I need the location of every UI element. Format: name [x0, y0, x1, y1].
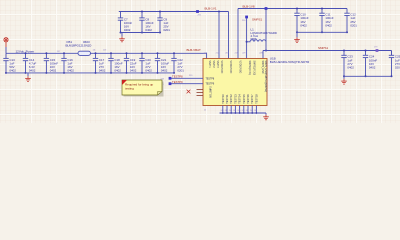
svg-text:242: 242 [225, 110, 228, 112]
U1B top pin names [208, 61, 266, 93]
svg-text:SMPS1(FLY1): SMPS1(FLY1) [248, 61, 250, 76]
svg-text:BLB-UENRG-50SQTR-NDTR: BLB-UENRG-50SQTR-NDTR [270, 60, 310, 64]
junction smpsgnd/C23 [343, 75, 345, 77]
junction gndrail/C16 [63, 72, 65, 74]
svg-text:SMPS1: SMPS1 [252, 17, 263, 21]
wire gnd stem U1B [265, 113, 267, 115]
junction 1v8gnd/C11 [321, 31, 323, 33]
svg-text:0201: 0201 [177, 69, 184, 73]
wire BLB-1V1 rail [119, 11, 229, 13]
svg-text:TEST16: TEST16 [246, 94, 250, 104]
capacitor C12 [344, 9, 357, 33]
capacitor C20 [139, 53, 152, 73]
U1B unconnected left pins [197, 90, 204, 96]
junction L1 left junction [246, 41, 248, 43]
svg-text:0402: 0402 [99, 69, 106, 73]
capacitor C17 [93, 53, 106, 73]
svg-text:0402: 0402 [9, 69, 16, 73]
no-connect cross [187, 90, 191, 94]
junction 1v1rail/C8 [141, 11, 143, 13]
wire C10-C12 ground bus [297, 31, 347, 33]
capacitor C14 [23, 53, 37, 73]
junction rail/C18 [110, 52, 112, 54]
wire U1B left pin wire TESTP9 [170, 83, 203, 85]
junction gndrail/C22 [173, 72, 175, 74]
ground GND1 [25, 76, 31, 81]
ground GND2 [119, 37, 125, 42]
capacitor C19 [124, 53, 137, 73]
svg-text:22: 22 [204, 110, 206, 112]
svg-text:0402: 0402 [300, 23, 307, 27]
junction gndrail/C14 [25, 72, 27, 74]
capacitor C25 [389, 51, 400, 77]
svg-text:0201: 0201 [395, 66, 400, 70]
junction rail/C22 [173, 52, 175, 54]
note box: Required for bring up testing [122, 80, 164, 97]
junction 1v1gnd/C7 [120, 32, 122, 34]
capacitor C11 [319, 9, 334, 33]
svg-text:TEST17: TEST17 [250, 94, 254, 104]
capacitor C16 [61, 53, 74, 73]
junction 1v1gnd/C8 [141, 32, 143, 34]
junction rail/C20 [141, 52, 143, 54]
svg-text:0402: 0402 [67, 69, 74, 73]
svg-text:0402: 0402 [29, 69, 36, 73]
capacitor C9 [157, 12, 170, 33]
svg-text:TESTP9: TESTP9 [206, 84, 215, 86]
svg-text:243: 243 [229, 110, 232, 112]
node net junction 1V8 [265, 7, 268, 10]
wire SMPS1 output rail [263, 50, 392, 52]
wire VBAT decoupling ground bus [6, 72, 174, 74]
wire power stem [5, 47, 7, 53]
svg-text:NO_SMPS: NO_SMPS [211, 86, 213, 98]
wire VBAT rail right [91, 52, 208, 54]
capacitor C23 [341, 51, 354, 77]
junction 1v8gnd/C10 [296, 31, 298, 33]
wire U1B test pin ground bus [220, 112, 267, 114]
inductor L1 [247, 40, 266, 42]
op-amp U1 (IC U1B body) [203, 59, 267, 106]
junction rail/C14 [25, 52, 27, 54]
U1B bottom pin names [221, 94, 259, 104]
junction gndrail/C19 [126, 72, 128, 74]
svg-text:VDDIO/VDD: VDDIO/VDD [220, 61, 222, 74]
node net tie SMPS1 [245, 16, 248, 19]
capacitor C21 [155, 53, 170, 73]
wire VBAT rail left [6, 52, 78, 54]
U1B bottom pin stubs [223, 106, 257, 114]
capacitor C18 [108, 53, 123, 73]
svg-text:0402: 0402 [369, 66, 376, 70]
junction 1V8/SMPS junction [265, 50, 267, 52]
ground GND4 [341, 79, 347, 84]
wire VBAT rail drop to U1B [206, 53, 208, 58]
wire SMPS1 out pin wire [262, 51, 264, 59]
svg-text:249: 249 [254, 110, 257, 112]
svg-text:TESTP8: TESTP8 [172, 75, 183, 79]
junction 1v8rail/C10 [296, 8, 298, 10]
wire 1V1 rail end drop to U1B [228, 12, 230, 59]
bottom bus junctions [222, 112, 257, 114]
svg-text:0402: 0402 [130, 69, 137, 73]
wire gnd stem C7 [121, 33, 123, 37]
wire 1V8 drop to L1 [265, 9, 267, 51]
svg-text:TESTP8: TESTP8 [206, 78, 215, 80]
junction 1v8rail/C11 [321, 8, 323, 10]
svg-text:SMPS1(FLY2): SMPS1(FLY2) [252, 61, 254, 76]
svg-text:0402: 0402 [124, 28, 131, 32]
junction rail/C15 [45, 52, 47, 54]
svg-text:BLB-1V1: BLB-1V1 [205, 6, 217, 10]
node net end 233 [169, 77, 172, 80]
svg-text:244: 244 [233, 110, 236, 112]
wire BLB-1V8 rail [238, 8, 347, 10]
junction 1V1 drop [218, 11, 220, 13]
svg-text:241: 241 [221, 110, 224, 112]
svg-text:SMPS_GND: SMPS_GND [261, 61, 263, 74]
junction gndrail/C18 [110, 72, 112, 74]
ferrite bead FB1 [66, 40, 92, 55]
capacitor C13 [3, 53, 16, 73]
svg-text:BLB-1V8: BLB-1V8 [243, 4, 255, 8]
junction smps/C23 [343, 50, 345, 52]
svg-text:0201: 0201 [163, 28, 170, 32]
svg-text:0402: 0402 [145, 69, 152, 73]
capacitor C24 [363, 51, 378, 77]
U1B bottom pin numbers [204, 110, 257, 112]
junction 1v1rail/C9 [159, 11, 161, 13]
svg-text:VBAT2: VBAT2 [212, 61, 215, 69]
svg-text:BLM18PG121SN1D: BLM18PG121SN1D [66, 44, 92, 48]
svg-text:TEST12: TEST12 [229, 94, 233, 104]
node net end 234 [169, 82, 172, 85]
junction gndrail/C17 [95, 72, 97, 74]
wire SMPS1 rail drop right [391, 51, 393, 56]
svg-text:248: 248 [250, 110, 253, 112]
svg-text:SMPS_GND(SMPS1)(SMPS2): SMPS_GND(SMPS1)(SMPS2) [264, 61, 266, 93]
svg-text:TESTP9: TESTP9 [172, 80, 183, 84]
wire U1B left pin wire TESTP8 [170, 77, 203, 79]
svg-text:VBAT1: VBAT1 [208, 61, 211, 69]
svg-text:246: 246 [242, 110, 245, 112]
svg-text:0201: 0201 [350, 23, 357, 27]
wire gnd stem C10 [296, 32, 298, 37]
svg-text:TEST14: TEST14 [238, 94, 242, 104]
ground GND3 [294, 37, 300, 42]
capacitor C15 [44, 53, 59, 73]
svg-text:testing: testing [125, 87, 134, 91]
svg-text:0402: 0402 [347, 66, 354, 70]
junction rail/C17 [95, 52, 97, 54]
junction gndrail/C13 [5, 72, 7, 74]
svg-text:0402: 0402 [325, 23, 332, 27]
svg-text:VDDIO/VBG: VDDIO/VBG [239, 61, 241, 74]
wire gnd stem left [27, 73, 29, 76]
wire 1V1 drop to U1B pin [218, 12, 220, 59]
svg-text:TEST18: TEST18 [254, 94, 258, 104]
junction smpsgnd/C24 [365, 75, 367, 77]
junction 1v8gnd/C12 [346, 31, 348, 33]
wire 1V8 drop to U1B [237, 9, 239, 59]
svg-text:TEST11: TEST11 [225, 94, 229, 104]
svg-text:0805: 0805 [251, 37, 258, 41]
svg-text:0402: 0402 [114, 69, 121, 73]
junction smpsgnd/C25 [391, 75, 393, 77]
wire gnd stem C23 [343, 76, 345, 79]
svg-text:0402: 0402 [161, 69, 168, 73]
power flag 12V P1 [4, 38, 8, 47]
junction gndrail/C15 [45, 72, 47, 74]
junction gndrail/C21 [157, 72, 159, 74]
capacitor C22 [171, 53, 184, 73]
wire C7-C9 ground bus [121, 32, 161, 34]
capacitor C10 [294, 9, 309, 33]
svg-text:VDDIO/VDD: VDDIO/VDD [229, 61, 231, 74]
svg-text:TEST10: TEST10 [221, 94, 225, 104]
junction 1v1gnd/C9 [159, 32, 161, 34]
capacitor C7 [118, 12, 133, 33]
svg-text:245: 245 [237, 110, 240, 112]
wire C23-C25 ground bus [344, 75, 392, 77]
junction rail/C19 [126, 52, 128, 54]
node net tie 292 [196, 10, 199, 13]
svg-text:247: 247 [246, 110, 249, 112]
ground GND5 [263, 115, 269, 120]
wire SMPS1 pin wire [246, 18, 248, 58]
svg-text:BLB-VBAT: BLB-VBAT [187, 48, 201, 52]
junction rail/C21 [157, 52, 159, 54]
node net tie 179 [376, 49, 379, 52]
svg-text:TEST15: TEST15 [242, 94, 246, 104]
svg-text:0402: 0402 [145, 28, 152, 32]
junction rail/C16 [63, 52, 65, 54]
svg-text:TEST13: TEST13 [233, 94, 237, 104]
junction gndrail/C20 [141, 72, 143, 74]
svg-text:VBAT3: VBAT3 [216, 61, 219, 69]
capacitor C8 [139, 12, 154, 33]
svg-text:SMPS1: SMPS1 [318, 46, 329, 50]
U1B left pin names [206, 78, 215, 97]
svg-text:0402: 0402 [50, 69, 57, 73]
junction smps/C24 [365, 50, 367, 52]
